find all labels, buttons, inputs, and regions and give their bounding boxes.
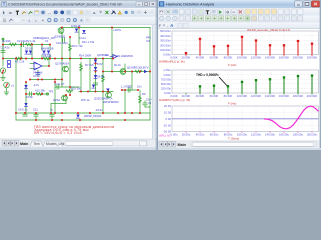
wire col x112 bbox=[111, 28, 113, 72]
svg-text:20.00u: 20.00u bbox=[182, 132, 191, 136]
label V3b bbox=[148, 101, 152, 105]
toolbar icons row 1 (schematic window) bbox=[2, 10, 154, 15]
svg-text:0.00u: 0.00u bbox=[171, 132, 178, 136]
svg-text:200.00u: 200.00u bbox=[307, 132, 318, 136]
svg-text:C10 220n: C10 220n bbox=[56, 41, 68, 45]
svg-text:HARM(v(RL)) (p, 5k): HARM(v(RL)) (p, 5k) bbox=[159, 60, 185, 64]
svg-text:140.00K: 140.00K bbox=[265, 56, 276, 60]
label S9 bbox=[97, 75, 105, 79]
svg-text:C:\MC9\DATA\TehPetrov's Docume: C:\MC9\DATA\TehPetrov's Documents\decode… bbox=[8, 2, 123, 6]
wire right mid rail bbox=[103, 71, 150, 73]
wire col x38 bbox=[37, 70, 39, 76]
wire opamp in1 bbox=[30, 63, 34, 65]
svg-text:WASPMOD2: WASPMOD2 bbox=[103, 100, 119, 104]
svg-text:100.00m: 100.00m bbox=[160, 48, 172, 52]
toolbars bbox=[158, 8, 321, 16]
wire col x62 mid bbox=[61, 59, 63, 88]
label C7 bbox=[55, 82, 65, 86]
svg-text:180.00u: 180.00u bbox=[293, 132, 304, 136]
label R16 bbox=[2, 39, 11, 43]
annotation red text bbox=[34, 125, 115, 135]
label 10n bbox=[137, 84, 142, 88]
label R5 bbox=[134, 66, 143, 70]
svg-text:A: A bbox=[170, 23, 173, 28]
source V1 bbox=[4, 82, 10, 92]
diode D12 bbox=[24, 85, 27, 89]
transistor Q6 bbox=[120, 69, 126, 75]
label Q2N5551 top bbox=[54, 35, 66, 39]
diode D11 bbox=[24, 103, 27, 107]
plot 2 axis ticks bbox=[185, 93, 187, 95]
plot 1 x axis name bbox=[228, 63, 236, 67]
wire col x81 bbox=[80, 62, 82, 92]
capacitor C9 opamp bbox=[36, 73, 40, 75]
plot 2 y-axis labels bbox=[161, 68, 172, 95]
svg-text:2k R16: 2k R16 bbox=[2, 39, 11, 43]
probe W2 bbox=[110, 55, 117, 59]
plot 1 y-axis labels bbox=[160, 29, 172, 57]
svg-text:C1 A3u: C1 A3u bbox=[1, 46, 10, 50]
toolbar row 2 bbox=[0, 17, 157, 25]
window body bbox=[157, 0, 321, 150]
plot 1 red harmonic stems bbox=[185, 36, 313, 55]
svg-text:80.00K: 80.00K bbox=[224, 56, 233, 60]
capacitor C1 bbox=[1, 46, 5, 52]
analysis toolbar icons row 2 bbox=[159, 16, 302, 21]
plot 3 output sine v(RL) bbox=[264, 106, 319, 129]
plot 3 axis ticks bbox=[185, 132, 187, 134]
wire col x49 bbox=[48, 59, 50, 67]
capacitor C11 bbox=[34, 113, 38, 120]
label Q6 name bbox=[127, 66, 135, 70]
resistor R14 bbox=[80, 64, 83, 71]
transistor Q1 bbox=[63, 66, 69, 72]
svg-text:F (Hz): F (Hz) bbox=[228, 102, 236, 106]
svg-text:180.00K: 180.00K bbox=[293, 94, 304, 98]
toolbar icons row 2 (schematic window) bbox=[2, 18, 90, 23]
svg-text:Q2SA: Q2SA bbox=[53, 98, 60, 102]
svg-text:HARMPCT(v(RL)) (p, 5k): HARMPCT(v(RL)) (p, 5k) bbox=[159, 98, 190, 102]
wire col x125b bbox=[124, 90, 126, 113]
svg-text:10.00: 10.00 bbox=[164, 111, 171, 115]
wire col x132 bbox=[131, 72, 133, 91]
wire col x50 bbox=[49, 45, 51, 51]
svg-text:10.2p: 10.2p bbox=[26, 95, 33, 99]
svg-text:500.00m: 500.00m bbox=[160, 29, 172, 33]
plot 3 x axis name bbox=[228, 136, 239, 140]
capacitor C5 bbox=[93, 83, 97, 85]
window buttons min/max/close bbox=[295, 1, 321, 7]
label wasp mod bbox=[84, 114, 102, 118]
label D12 a bbox=[25, 47, 33, 51]
svg-text:V8 A31: V8 A31 bbox=[43, 54, 52, 58]
source V1 arrow bbox=[5, 83, 8, 87]
svg-text:100.00K: 100.00K bbox=[237, 56, 248, 60]
label R12 bbox=[35, 89, 46, 93]
capacitor C6 bbox=[23, 114, 27, 116]
label C9z bbox=[128, 84, 132, 88]
window borders right bbox=[157, 0, 321, 150]
svg-text:Harmonic Distortion Analysis: Harmonic Distortion Analysis bbox=[166, 3, 214, 7]
svg-text:v1: v1 bbox=[11, 84, 14, 88]
window buttons bbox=[136, 1, 156, 6]
plot 1 title bbox=[247, 28, 290, 32]
label WASP bbox=[94, 97, 113, 101]
svg-text:R4 1.74k: R4 1.74k bbox=[72, 44, 83, 48]
resistor R3 bbox=[43, 57, 50, 60]
wire comp rail bbox=[26, 93, 48, 95]
svg-text:200.00m: 200.00m bbox=[160, 43, 172, 47]
plot 3 y-axis labels bbox=[163, 104, 171, 133]
svg-text:R7b 1k: R7b 1k bbox=[81, 98, 90, 102]
tab Models_Links bbox=[43, 141, 67, 147]
svg-text:1.00m: 1.00m bbox=[163, 73, 171, 77]
label C2 bbox=[17, 39, 26, 43]
svg-text:C6 5.1u: C6 5.1u bbox=[18, 108, 28, 112]
label BAV99 a bbox=[41, 47, 54, 51]
source V2 bbox=[0, 68, 5, 73]
svg-text:40.00K: 40.00K bbox=[196, 56, 205, 60]
label R2 bbox=[26, 39, 36, 43]
resistor R12 bbox=[36, 93, 43, 96]
label R1 bbox=[15, 60, 25, 64]
capacitor C10 bbox=[63, 38, 65, 42]
svg-text:140.00K: 140.00K bbox=[265, 94, 276, 98]
label Q5 bbox=[97, 53, 109, 57]
svg-text:WASP_decoder_25kHz F=E 0.8: WASP_decoder_25kHz F=E 0.8 bbox=[247, 28, 290, 32]
svg-text:750.00u: 750.00u bbox=[161, 77, 172, 81]
label RV1 bbox=[146, 36, 152, 40]
label V-8 bbox=[146, 39, 151, 43]
diode D5 bbox=[75, 29, 78, 33]
junction dots right rail bbox=[102, 71, 151, 73]
svg-text:1u: 1u bbox=[50, 108, 53, 112]
transistor Q3 bbox=[62, 95, 68, 101]
wire zobel rail bbox=[122, 89, 138, 91]
title bar bbox=[0, 0, 157, 8]
diode D13 output bbox=[144, 70, 147, 73]
svg-text:Q2 N5401A: Q2 N5401A bbox=[55, 62, 69, 66]
transistor Q5 arrow bbox=[106, 89, 110, 92]
analysis toolbar icons row 1 bbox=[159, 9, 303, 14]
svg-text:THD = 0,0008%: THD = 0,0008% bbox=[196, 73, 219, 77]
transistor Q2 bbox=[58, 28, 64, 34]
svg-text:200.00K: 200.00K bbox=[307, 94, 318, 98]
svg-text:-19.5v: -19.5v bbox=[95, 108, 103, 112]
label V8 bbox=[43, 54, 52, 58]
capacitor C12 bbox=[50, 113, 54, 120]
wire col right border bbox=[149, 28, 151, 121]
wire col input bbox=[2, 38, 4, 66]
svg-text:180.00K: 180.00K bbox=[293, 56, 304, 60]
left window bottom border bbox=[0, 148, 157, 150]
plot 2 expression label bbox=[159, 98, 190, 102]
analysis page nav buttons bbox=[158, 142, 321, 151]
plot 1 axis ticks bbox=[185, 55, 187, 57]
svg-text:out: out bbox=[105, 53, 109, 57]
svg-text:200.00K: 200.00K bbox=[307, 56, 318, 60]
svg-text:S9 68: S9 68 bbox=[97, 75, 105, 79]
wire col x42b bbox=[41, 55, 43, 59]
ground V2 bbox=[1, 73, 5, 80]
svg-text:+19.5v: +19.5v bbox=[113, 28, 122, 32]
terminal IN bbox=[2, 38, 4, 40]
wire feedback rail bbox=[30, 79, 62, 81]
svg-text:BAV99 D8: BAV99 D8 bbox=[41, 47, 54, 51]
svg-text:V8 8.1V: V8 8.1V bbox=[33, 71, 43, 75]
wire col x79 bbox=[78, 28, 80, 45]
svg-text:160.00K: 160.00K bbox=[279, 94, 290, 98]
diode D14 bbox=[76, 115, 79, 119]
plot 1 x-axis labels bbox=[170, 56, 317, 60]
analysis horizontal scrollbar bbox=[191, 142, 316, 147]
plot 3 x-axis labels bbox=[171, 132, 318, 136]
label W2 bbox=[116, 54, 133, 58]
wire long mid rail bbox=[3, 58, 113, 60]
window body bbox=[0, 0, 157, 150]
label -9.2 bbox=[33, 83, 40, 87]
svg-text:v(RL) (V): v(RL) (V) bbox=[159, 134, 170, 138]
wire col x42 bbox=[41, 45, 43, 51]
plot 2 green harmonic stems bbox=[199, 74, 313, 93]
label X1 ref bbox=[45, 39, 49, 43]
svg-text:400.00m: 400.00m bbox=[160, 34, 172, 38]
label X1 name bbox=[33, 36, 55, 40]
bottom tab bar bbox=[0, 139, 157, 150]
svg-text:-9.2v: -9.2v bbox=[33, 83, 40, 87]
source V2 arrow bbox=[2, 69, 5, 74]
wire col x70 top bbox=[69, 37, 71, 59]
diode D2 bbox=[29, 51, 32, 55]
plot 1 expression label bbox=[159, 60, 185, 64]
svg-text:ab: ab bbox=[9, 11, 13, 15]
wire opamp in2 bbox=[30, 68, 34, 70]
window edge lines bbox=[0, 0, 321, 150]
svg-text:80.00K: 80.00K bbox=[224, 94, 233, 98]
svg-text:Text: Text bbox=[34, 142, 40, 146]
page nav buttons bbox=[0, 141, 157, 151]
junction dots misc bbox=[25, 36, 139, 96]
junction dots input rail bbox=[2, 44, 51, 46]
wire col x125 bbox=[124, 64, 126, 72]
toolbar row 1 bbox=[0, 8, 157, 17]
label C9 bbox=[33, 74, 41, 78]
label R14 bbox=[79, 54, 91, 58]
capacitor C2 bbox=[22, 42, 24, 46]
label C12 bbox=[50, 108, 53, 112]
plot 2 THD frame bbox=[172, 70, 319, 93]
plot 3 transient frame bbox=[172, 106, 319, 132]
resistor R2 bbox=[26, 43, 33, 46]
svg-text:TP1: TP1 bbox=[49, 90, 54, 94]
wire col x103 bbox=[102, 59, 104, 114]
svg-text:R7 1k6: R7 1k6 bbox=[85, 63, 94, 67]
svg-text:60.00K: 60.00K bbox=[210, 56, 219, 60]
resistor R4 bbox=[69, 44, 72, 51]
bottom border strip right bbox=[158, 148, 321, 150]
wire top rail bbox=[61, 27, 150, 29]
resistor R1 bbox=[16, 57, 23, 60]
svg-text:250.00u: 250.00u bbox=[161, 87, 172, 91]
svg-text:120.00K: 120.00K bbox=[251, 56, 262, 60]
svg-text:100.00K: 100.00K bbox=[237, 94, 248, 98]
diode D3 bbox=[42, 51, 45, 55]
junction dots bottom border bbox=[35, 119, 126, 121]
label R22 bbox=[121, 84, 131, 88]
label C11 bbox=[33, 108, 38, 112]
op-amp X1 bbox=[34, 62, 42, 70]
connector J1 bbox=[8, 61, 11, 68]
wire col x51 bbox=[50, 104, 52, 114]
wire col x26 bbox=[25, 82, 27, 113]
label minus19 bbox=[95, 108, 103, 112]
svg-text:Main: Main bbox=[178, 143, 187, 147]
horizontal scrollbar bbox=[64, 141, 147, 146]
label Q1 name bbox=[55, 62, 69, 66]
bottom border strip bbox=[0, 147, 157, 150]
svg-text:10n: 10n bbox=[137, 84, 142, 88]
svg-text:WASP_MOD2: WASP_MOD2 bbox=[84, 114, 102, 118]
tab Text bbox=[30, 141, 43, 147]
wire col x90 bbox=[89, 59, 91, 92]
diode D10 bbox=[92, 85, 95, 89]
label Q4 name bbox=[103, 100, 119, 104]
svg-text:160.00u: 160.00u bbox=[279, 132, 290, 136]
svg-text:3.3u C7: 3.3u C7 bbox=[55, 82, 65, 86]
wire col x62 top bbox=[61, 28, 63, 59]
capacitor C7 bbox=[57, 85, 59, 89]
svg-text:W2 HARMON: W2 HARMON bbox=[116, 54, 133, 58]
svg-text:C9: C9 bbox=[128, 84, 132, 88]
diode D1 bbox=[25, 51, 28, 55]
svg-text:-10.00: -10.00 bbox=[163, 123, 171, 127]
svg-text:C11: C11 bbox=[33, 108, 38, 112]
resistor R5 bbox=[135, 70, 142, 73]
capacitor C3 bbox=[30, 92, 32, 96]
svg-text:1N4148: 1N4148 bbox=[71, 24, 81, 28]
plot 2 x-axis labels bbox=[170, 94, 317, 98]
ground V1 bbox=[4, 92, 8, 95]
analysis toolbar icons row 3 bbox=[159, 23, 189, 28]
svg-text:1.25m: 1.25m bbox=[163, 68, 171, 72]
svg-text:R5 20k: R5 20k bbox=[134, 66, 143, 70]
svg-text:C2 A3u: C2 A3u bbox=[17, 39, 26, 43]
wire col x16 bbox=[15, 59, 17, 121]
left schematic editor window bbox=[0, 0, 157, 150]
svg-text:D5 D8: D5 D8 bbox=[25, 47, 33, 51]
tab Main bbox=[20, 142, 29, 146]
svg-text:A12 28k: A12 28k bbox=[35, 89, 46, 93]
label C1 bbox=[1, 46, 10, 50]
svg-text:BYV: BYV bbox=[143, 65, 149, 69]
label R7b bbox=[81, 98, 90, 102]
svg-text:C4 1n: C4 1n bbox=[79, 36, 87, 40]
THD annotation bbox=[196, 73, 227, 86]
svg-text:Models_Links: Models_Links bbox=[46, 142, 67, 146]
resistor R7 bbox=[102, 75, 105, 82]
label out bbox=[105, 53, 109, 57]
wire col x70 mid bbox=[69, 59, 71, 96]
svg-text:Q2SCWASP_A: Q2SCWASP_A bbox=[94, 97, 113, 101]
svg-text:Q2N5551: Q2N5551 bbox=[54, 35, 66, 39]
label 0.6 bbox=[97, 62, 103, 66]
resistor R10 bbox=[66, 90, 73, 93]
tab Main analysis bbox=[178, 143, 187, 147]
wire input rail bbox=[3, 44, 50, 46]
svg-text:SR = 19V/4,6uS = 4,3 V/uS: SR = 19V/4,6uS = 4,3 V/uS bbox=[34, 131, 83, 135]
svg-text:120.00u: 120.00u bbox=[251, 132, 262, 136]
wire col x66 out bbox=[65, 95, 67, 104]
bottom tab bar bbox=[158, 140, 321, 150]
terminal TP1 bbox=[46, 93, 48, 95]
label C6 bbox=[18, 108, 28, 112]
wire col x55 bbox=[54, 82, 56, 113]
svg-text:140.00u: 140.00u bbox=[265, 132, 276, 136]
wire col x21 bbox=[20, 45, 22, 59]
resistor R9 bbox=[139, 96, 142, 103]
label R9 bbox=[142, 92, 146, 96]
label 22n bbox=[146, 98, 155, 102]
wire col x50b bbox=[49, 55, 51, 59]
svg-text:X1: X1 bbox=[45, 39, 49, 43]
label D13 bbox=[143, 65, 149, 69]
wire output rail bbox=[51, 103, 66, 105]
label plus19 bbox=[113, 28, 122, 32]
svg-text:V3: V3 bbox=[148, 101, 152, 105]
svg-text:40.00u: 40.00u bbox=[196, 132, 205, 136]
label C4 bbox=[79, 36, 87, 40]
junction dots mid rail bbox=[2, 58, 114, 60]
svg-text:40.00K: 40.00K bbox=[196, 94, 205, 98]
svg-text:R9: R9 bbox=[142, 92, 146, 96]
svg-text:60.00K: 60.00K bbox=[210, 94, 219, 98]
title icon + text bbox=[159, 1, 164, 6]
svg-text:V-8: V-8 bbox=[146, 39, 151, 43]
label R4 bbox=[72, 44, 83, 48]
plot 3 trace label bbox=[159, 134, 170, 138]
wire opamp out bbox=[42, 65, 49, 67]
junction dots fb rail bbox=[29, 79, 63, 81]
plot 3 zero baseline trace bbox=[172, 118, 319, 120]
svg-text:120.00K: 120.00K bbox=[251, 94, 262, 98]
svg-text:60.00u: 60.00u bbox=[210, 132, 219, 136]
svg-text:R11 1.74k: R11 1.74k bbox=[82, 40, 95, 44]
junction dots comp rail bbox=[25, 93, 43, 95]
label R7 bbox=[85, 63, 94, 67]
diode D6 bbox=[82, 30, 85, 34]
wire lower rail bbox=[16, 112, 150, 114]
svg-text:0.00: 0.00 bbox=[166, 117, 172, 121]
svg-text:T (Secs): T (Secs) bbox=[228, 136, 239, 140]
wire col x140 bbox=[139, 90, 141, 113]
resistor R16 bbox=[10, 43, 17, 46]
label R10 bbox=[71, 86, 82, 90]
schematic canvas bbox=[0, 25, 157, 139]
wire bottom border rail bbox=[16, 119, 150, 121]
svg-text:R14 100R: R14 100R bbox=[79, 54, 91, 58]
plot client area bbox=[158, 29, 319, 140]
svg-text:R1 1.2k: R1 1.2k bbox=[15, 60, 25, 64]
svg-text:Rs 1k: Rs 1k bbox=[114, 63, 122, 67]
svg-text:300.00m: 300.00m bbox=[160, 39, 172, 43]
junction dot opamp out bbox=[48, 65, 50, 67]
wire col x32 bbox=[31, 45, 33, 59]
label Rs bbox=[114, 63, 122, 67]
capacitor C9z bbox=[128, 88, 130, 92]
right analysis window bbox=[157, 0, 321, 150]
wire vas rail bbox=[55, 86, 79, 88]
svg-text:0.6V: 0.6V bbox=[97, 62, 103, 66]
